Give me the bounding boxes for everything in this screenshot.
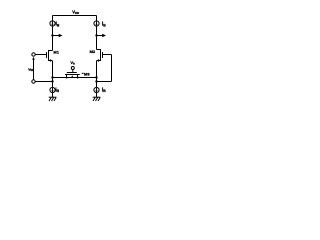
svg-text:IB: IB bbox=[56, 22, 60, 28]
svg-text:IB: IB bbox=[102, 87, 106, 93]
svg-text:M3: M3 bbox=[84, 71, 90, 76]
svg-text:IB: IB bbox=[102, 22, 106, 28]
svg-text:Vb: Vb bbox=[70, 60, 75, 66]
svg-text:vIN: vIN bbox=[28, 66, 33, 72]
svg-text:IB: IB bbox=[55, 87, 59, 93]
svg-text:VDD: VDD bbox=[72, 10, 79, 15]
svg-text:M2: M2 bbox=[90, 49, 96, 54]
svg-text:M1: M1 bbox=[53, 50, 59, 55]
